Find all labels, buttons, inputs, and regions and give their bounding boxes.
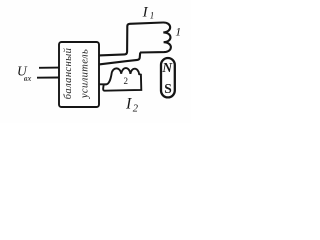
svg-text:2: 2 (133, 104, 139, 115)
svg-text:1: 1 (150, 11, 155, 21)
inductor coil 1 (140, 22, 171, 52)
svg-text:N: N (161, 60, 173, 75)
svg-text:1: 1 (175, 25, 181, 39)
wire: box lower output to coil 2 (99, 83, 107, 85)
svg-text:I: I (142, 4, 149, 20)
svg-text:2: 2 (124, 76, 129, 86)
svg-text:вх: вх (24, 73, 32, 83)
wire B: coil 1 bottom back to box (99, 53, 140, 65)
svg-text:усилитель: усилитель (80, 49, 91, 99)
magnet (stadium) (161, 58, 175, 97)
amplifier box U1 (балансный усилитель) (59, 42, 99, 107)
svg-text:S: S (164, 81, 172, 96)
wire A: box upper output to coil 1 top (99, 23, 163, 56)
input wire lower (37, 77, 59, 79)
inductor coil 2 (103, 68, 141, 91)
svg-text:балансный: балансный (63, 47, 74, 99)
input wire upper (39, 67, 59, 69)
svg-text:I: I (125, 95, 132, 112)
